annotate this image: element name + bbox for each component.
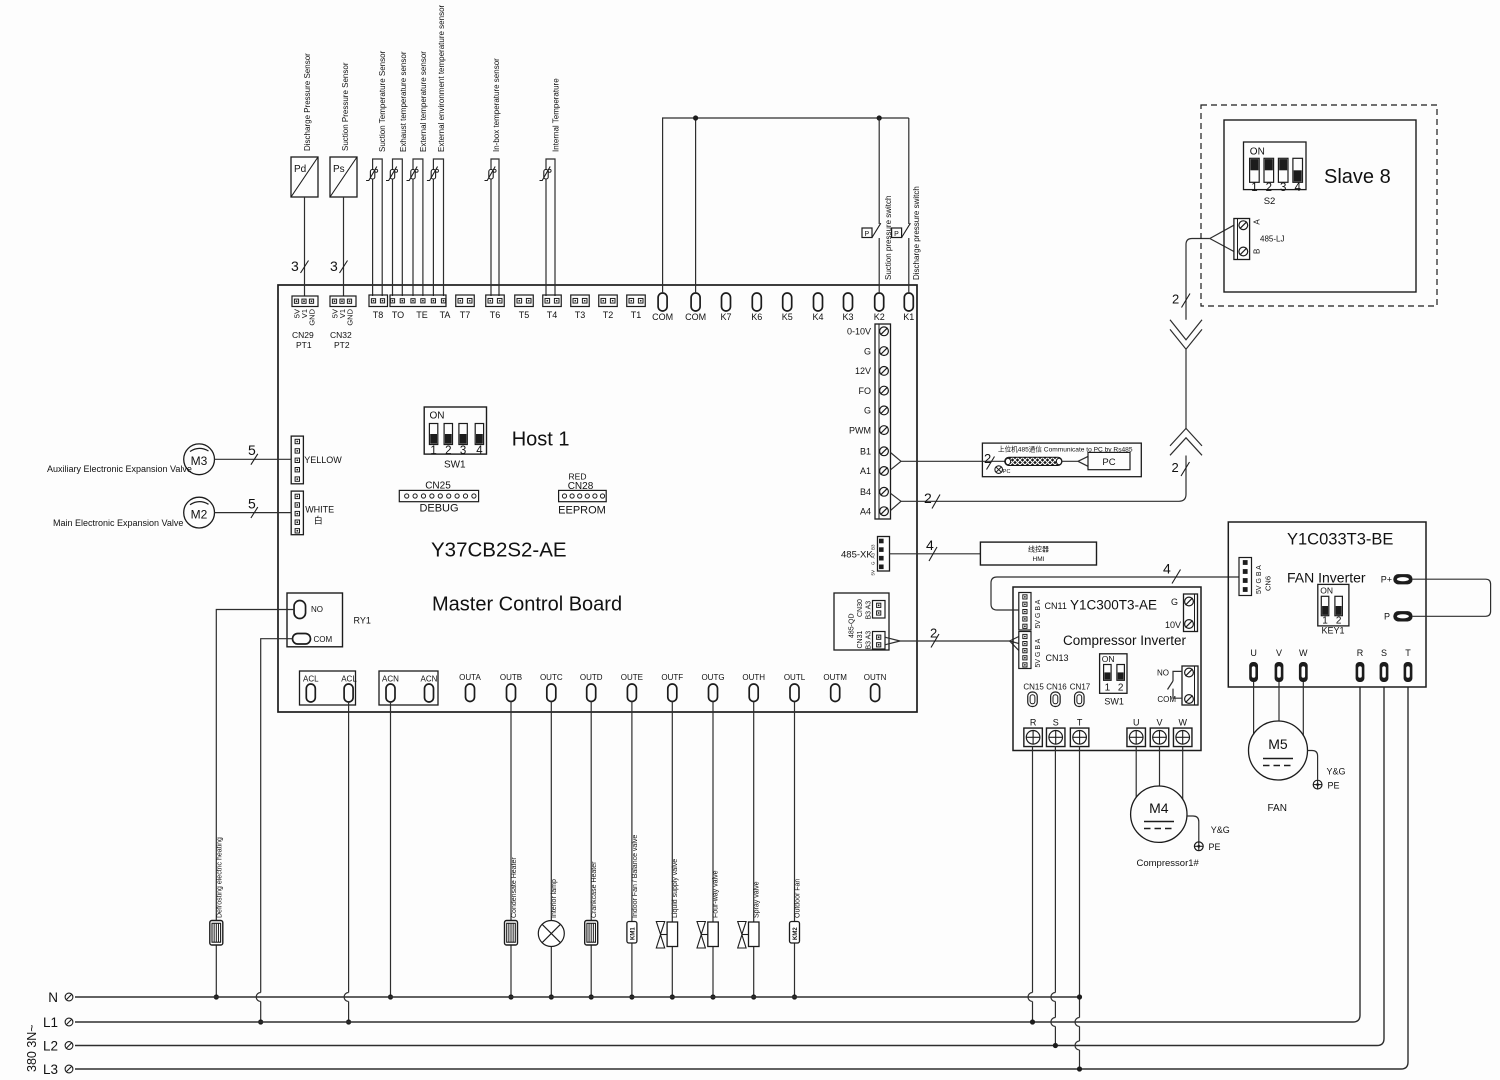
svg-text:W: W <box>1178 718 1187 728</box>
svg-text:TA: TA <box>440 310 451 320</box>
ground PE compressor <box>1194 842 1220 852</box>
svg-text:T6: T6 <box>490 310 501 320</box>
svg-text:OUTC: OUTC <box>540 673 563 682</box>
connector T4 <box>543 295 562 320</box>
terminal strip 0-10V..A4 <box>847 324 891 519</box>
svg-text:OUTH: OUTH <box>742 673 765 682</box>
connector CN_WHITE 5pin <box>291 491 334 535</box>
wire ACL2 to L1 <box>344 702 349 1022</box>
power line N <box>48 990 1079 1005</box>
svg-text:2: 2 <box>1118 683 1124 694</box>
slave unit dashed enclosure <box>1201 105 1437 306</box>
label Discharge pressure switch <box>912 186 921 280</box>
svg-text:TO: TO <box>392 310 404 320</box>
svg-text:Indoor Fan / Balance valve: Indoor Fan / Balance valve <box>632 835 639 918</box>
connector CN25 DEBUG <box>399 481 478 515</box>
grounding circle PC <box>995 466 1011 475</box>
svg-text:5: 5 <box>248 442 256 458</box>
svg-text:S: S <box>1053 718 1059 728</box>
TE sensor loop wire <box>413 159 423 296</box>
wire OUTG to N with solenoid valve <box>712 702 714 998</box>
motor M4 compressor <box>1131 786 1187 842</box>
svg-text:Spray valve: Spray valve <box>753 881 760 918</box>
svg-text:G: G <box>1171 597 1178 607</box>
TO sensor loop wire <box>393 159 403 296</box>
suction pressure switch to K2 <box>862 118 881 293</box>
svg-text:U: U <box>1133 718 1140 728</box>
svg-text:Pd: Pd <box>294 164 306 175</box>
wire-break chevrons up <box>1170 428 1202 455</box>
svg-text:485-QD: 485-QD <box>849 613 856 638</box>
terminal OUTF <box>661 673 683 702</box>
fan inverter terminal U <box>1249 648 1258 682</box>
svg-text:FAN Inverter: FAN Inverter <box>1287 570 1366 586</box>
svg-text:1: 1 <box>430 445 436 457</box>
svg-text:OUTB: OUTB <box>500 673 522 682</box>
wire OUTD to N with crankcase heater <box>590 702 592 998</box>
svg-text:Y1C300T3-AE: Y1C300T3-AE <box>1070 598 1157 613</box>
TA sensor loop wire <box>433 159 443 296</box>
connector T8 <box>369 295 388 320</box>
svg-text:GND: GND <box>346 308 355 325</box>
svg-text:CN31: CN31 <box>857 630 864 648</box>
connector T1 <box>627 295 646 320</box>
junction OUTC on N <box>549 994 554 999</box>
compressor inverter board Y1C300T3-AE <box>1013 587 1201 751</box>
svg-text:M2: M2 <box>191 507 208 521</box>
wire RY1 NO to N line <box>216 610 294 998</box>
T6 sensor loop wire <box>491 159 499 296</box>
wire Ps to CN32 <box>330 197 348 296</box>
svg-text:2: 2 <box>1266 182 1272 194</box>
svg-text:PT1: PT1 <box>296 340 312 350</box>
svg-text:2: 2 <box>1172 460 1179 475</box>
svg-text:ACL: ACL <box>303 675 319 684</box>
terminal OUTG <box>701 673 724 702</box>
svg-text:K5: K5 <box>782 312 793 322</box>
label Y37CB2S2-AE <box>431 539 567 562</box>
svg-text:KEY1: KEY1 <box>1321 626 1344 636</box>
svg-text:3: 3 <box>1280 182 1286 194</box>
svg-text:RED: RED <box>569 472 587 482</box>
svg-text:EEPROM: EEPROM <box>558 505 606 517</box>
svg-text:CN32: CN32 <box>330 330 352 340</box>
junction OUTD on N <box>589 994 594 999</box>
svg-text:5V: 5V <box>871 570 876 576</box>
svg-text:Slave 8: Slave 8 <box>1324 166 1391 188</box>
terminals U V W compressor <box>1127 718 1192 747</box>
svg-text:SW1: SW1 <box>1104 697 1124 707</box>
terminal K4 <box>812 293 823 322</box>
svg-text:Defrosting electric heating: Defrosting electric heating <box>217 837 224 918</box>
motor M5 fan <box>1249 721 1308 780</box>
svg-text:In-box temperature sensor: In-box temperature sensor <box>492 58 501 152</box>
svg-text:OUTF: OUTF <box>661 673 683 682</box>
wire M5 Y&G to PE <box>1308 751 1346 780</box>
svg-text:DEBUG: DEBUG <box>419 503 458 515</box>
label Suction pressure switch <box>884 196 893 280</box>
wire COM common net to pressure switches <box>663 118 909 293</box>
svg-text:OUTD: OUTD <box>580 673 603 682</box>
label Main Electronic Expansion Valve <box>53 518 183 528</box>
svg-text:CN15: CN15 <box>1023 683 1044 692</box>
T6 thermistor symbol <box>485 167 497 181</box>
svg-text:External temperature sensor: External temperature sensor <box>419 51 428 152</box>
master control board outline Y37CB2S2-AE <box>278 285 917 712</box>
svg-text:NO: NO <box>311 605 323 614</box>
svg-text:Discharge pressure switch: Discharge pressure switch <box>912 186 921 280</box>
label Discharge Pressure Sensor <box>303 53 312 151</box>
svg-text:Liquid supply valve: Liquid supply valve <box>672 859 679 918</box>
svg-text:Interior lamp: Interior lamp <box>551 879 558 918</box>
label Auxiliary Electronic Expansion Valve <box>47 464 192 474</box>
label Indoor Fan Balance valve <box>632 835 639 918</box>
wire OUTL to N with outdoor fan coil <box>794 702 796 998</box>
svg-text:OUTN: OUTN <box>864 673 887 682</box>
terminal P <box>1384 611 1413 621</box>
junction ACL2 on L1 <box>346 1019 351 1024</box>
svg-text:OUTM: OUTM <box>823 673 847 682</box>
T8 sensor loop wire <box>373 159 383 296</box>
label Compressor1# <box>1137 858 1200 869</box>
connector T3 <box>571 295 590 320</box>
svg-text:10V: 10V <box>1165 620 1181 630</box>
terminal K3 <box>842 293 853 322</box>
svg-text:GND: GND <box>308 308 317 325</box>
svg-text:T: T <box>1077 718 1083 728</box>
wire between chevrons <box>1185 349 1187 428</box>
svg-text:Compressor Inverter: Compressor Inverter <box>1063 633 1187 648</box>
svg-text:K6: K6 <box>751 312 762 322</box>
power line L1 <box>43 687 1360 1030</box>
svg-text:R: R <box>1030 718 1037 728</box>
terminal OUTH <box>742 673 765 702</box>
svg-text:TE: TE <box>416 310 428 320</box>
junction T on L3 <box>1077 1066 1082 1071</box>
svg-text:ACN: ACN <box>382 675 399 684</box>
label FAN <box>1268 803 1287 814</box>
svg-text:M3: M3 <box>191 454 208 468</box>
T4 sensor loop wire <box>546 159 555 296</box>
label Master Control Board <box>432 594 622 616</box>
fan inverter terminal W <box>1299 648 1308 682</box>
svg-text:COM: COM <box>652 312 673 322</box>
svg-text:3: 3 <box>330 258 338 274</box>
motor M3 auxiliary expansion valve <box>184 444 215 475</box>
svg-text:ACL: ACL <box>341 675 357 684</box>
junction ACN1 on N <box>388 994 393 999</box>
junction on COM net above K2 <box>877 115 882 120</box>
wire CN31 to compressor CN13 <box>885 626 1019 651</box>
wire OUTF to N with solenoid valve <box>671 702 673 998</box>
svg-text:Outdoor Fan: Outdoor Fan <box>795 879 802 918</box>
terminal K6 <box>751 293 762 322</box>
power line L3 <box>43 687 1408 1077</box>
label External environment temperature sensor <box>437 4 446 152</box>
svg-text:Suction Pressure Sensor: Suction Pressure Sensor <box>341 62 350 151</box>
svg-text:ON: ON <box>430 411 445 422</box>
svg-text:Discharge Pressure Sensor: Discharge Pressure Sensor <box>303 53 312 151</box>
svg-text:ON: ON <box>1250 147 1265 158</box>
terminal COM <box>652 293 673 322</box>
svg-text:OUTL: OUTL <box>784 673 806 682</box>
svg-text:V: V <box>1156 718 1162 728</box>
connector T7 <box>456 295 475 320</box>
pressure sensor Pd (Discharge Pressure Sensor) <box>291 157 318 197</box>
indoor fan contactor coil KM1 <box>627 922 637 944</box>
svg-text:CN30: CN30 <box>857 599 864 617</box>
terminal OUTN <box>864 673 887 702</box>
wire CN11 to fan CN6 <box>991 561 1239 611</box>
label Four-way valve <box>713 870 720 918</box>
svg-text:B3 A3: B3 A3 <box>866 601 873 620</box>
svg-text:L2: L2 <box>43 1039 58 1054</box>
svg-text:485-XK: 485-XK <box>841 549 873 560</box>
svg-text:L3: L3 <box>43 1062 58 1077</box>
connector 485-LJ <box>1234 219 1285 260</box>
defrosting electric heating element <box>210 921 223 946</box>
label Outdoor Fan <box>795 879 802 918</box>
svg-text:Ps: Ps <box>333 164 345 175</box>
svg-text:485-LJ: 485-LJ <box>1260 235 1284 244</box>
DIP switch KEY1 <box>1318 584 1349 635</box>
terminal P+ with jumper <box>1381 574 1413 584</box>
power line L2 <box>43 687 1384 1054</box>
pressure sensor Ps (Suction Pressure Sensor) <box>330 157 357 197</box>
wire compressor S to L2 <box>1051 747 1056 1046</box>
svg-text:RY1: RY1 <box>354 616 371 626</box>
svg-text:ACN: ACN <box>421 675 438 684</box>
svg-text:线控器: 线控器 <box>1028 545 1049 554</box>
wire compressor T to L3 <box>1075 747 1080 1070</box>
svg-text:OUTG: OUTG <box>701 673 724 682</box>
svg-text:T1: T1 <box>631 310 642 320</box>
connector CN11 <box>1019 593 1067 631</box>
connector T6 <box>486 295 505 320</box>
label Suction Temperature Sensor <box>378 50 387 152</box>
label Host 1 <box>512 429 570 451</box>
svg-text:Y&G: Y&G <box>1327 767 1346 777</box>
svg-text:B3 A3: B3 A3 <box>866 631 873 650</box>
svg-text:G: G <box>864 406 871 416</box>
svg-text:Internal Temperature: Internal Temperature <box>552 78 561 152</box>
communicate to PC by RS485 box <box>982 443 1141 477</box>
junction OUTF on N <box>670 994 675 999</box>
svg-text:5V G B A: 5V G B A <box>1035 638 1042 667</box>
junction T on N <box>1077 994 1082 999</box>
svg-text:OUTE: OUTE <box>621 673 643 682</box>
svg-text:T7: T7 <box>460 310 471 320</box>
T8 thermistor symbol <box>366 167 378 181</box>
DIP switch SW1 on compressor inverter <box>1100 654 1127 707</box>
svg-text:5V G B A: 5V G B A <box>1256 565 1263 594</box>
label Defrosting electric heating <box>217 837 224 918</box>
terminal NO COM with contact <box>1157 666 1198 705</box>
svg-text:YELLOW: YELLOW <box>304 455 342 465</box>
svg-text:Auxiliary Electronic Expansion: Auxiliary Electronic Expansion Valve <box>47 464 192 474</box>
svg-text:S2: S2 <box>1264 196 1276 207</box>
svg-text:K2: K2 <box>874 312 885 322</box>
relay RY1 <box>287 593 371 647</box>
svg-text:G: G <box>871 561 876 565</box>
svg-text:ON: ON <box>1320 585 1333 595</box>
svg-text:Main Electronic Expansion Valv: Main Electronic Expansion Valve <box>53 518 183 528</box>
svg-text:A4: A4 <box>860 506 871 516</box>
label Condensate Heater <box>511 857 518 918</box>
wires U V W to motor M5 <box>1254 682 1304 736</box>
label Internal Temperature <box>552 78 561 152</box>
wire M2 to WHITE <box>215 495 292 518</box>
condensate heater element <box>505 921 518 946</box>
svg-text:Condensate Heater: Condensate Heater <box>511 857 518 918</box>
wires U V W to motor M4 <box>1136 747 1183 800</box>
Liquid supply valve solenoid valve symbol <box>656 922 677 949</box>
TA thermistor symbol <box>427 167 439 181</box>
wire 485-XK to HMI <box>890 537 981 561</box>
terminal K1 <box>903 293 914 322</box>
label Exhaust temperature sensor <box>399 51 408 152</box>
outdoor fan contactor coil KM2 <box>790 922 800 944</box>
PC box <box>1062 452 1131 469</box>
label Crankcase Heater <box>591 861 598 918</box>
svg-text:ON: ON <box>1102 654 1115 664</box>
svg-text:T2: T2 <box>603 310 614 320</box>
svg-text:N: N <box>48 990 58 1005</box>
svg-text:CN29: CN29 <box>292 330 314 340</box>
DIP switch SW1 on master board <box>424 407 486 471</box>
connector TO TE TA <box>390 295 450 320</box>
svg-text:P: P <box>894 231 899 238</box>
svg-text:K7: K7 <box>720 312 731 322</box>
svg-text:V: V <box>1276 648 1282 658</box>
wire RY1 COM to L1 line <box>256 639 292 1022</box>
connector CN6 <box>1239 558 1273 596</box>
junction RY1-NO on N <box>214 994 219 999</box>
svg-text:4: 4 <box>1163 561 1171 577</box>
svg-text:1: 1 <box>1251 182 1257 194</box>
svg-text:T4: T4 <box>547 310 558 320</box>
fan inverter terminal R <box>1356 648 1365 682</box>
label External temperature sensor <box>419 51 428 152</box>
connector CN_YELLOW 5pin <box>291 436 342 484</box>
DIP switch S2 <box>1244 142 1307 207</box>
label Liquid supply valve <box>672 859 679 918</box>
junction OUTE on N <box>629 994 634 999</box>
svg-text:SW1: SW1 <box>444 460 466 471</box>
svg-text:白: 白 <box>314 515 323 526</box>
svg-text:T: T <box>1405 648 1411 658</box>
svg-text:G: G <box>864 346 871 356</box>
junction OUTL on N <box>792 994 797 999</box>
svg-text:B: B <box>1253 249 1262 254</box>
wire OUTC to N with interior lamp <box>550 702 552 998</box>
svg-text:Four-way valve: Four-way valve <box>713 870 720 918</box>
svg-text:HMI: HMI <box>1033 556 1045 563</box>
svg-text:P+: P+ <box>1381 575 1392 585</box>
svg-text:5V G B A: 5V G B A <box>1035 599 1042 628</box>
svg-text:5: 5 <box>248 495 256 511</box>
junction on COM net above COM2 <box>693 115 698 120</box>
fan inverter board Y1C033T3-BE <box>1228 522 1426 687</box>
jumper wire P+ to P <box>1413 579 1491 616</box>
svg-text:Y37CB2S2-AE: Y37CB2S2-AE <box>431 539 567 562</box>
svg-text:1: 1 <box>1105 683 1111 694</box>
wire OUTE to N with contactor coil <box>631 702 633 998</box>
connector CN32 PT2 <box>330 296 356 350</box>
svg-text:Y&G: Y&G <box>1211 825 1230 835</box>
svg-text:External environment temperatu: External environment temperature sensor <box>437 4 446 152</box>
svg-text:KM2: KM2 <box>793 927 799 940</box>
HMI wire controller box <box>980 542 1096 565</box>
terminal K5 <box>782 293 793 322</box>
connector CN28 EEPROM RED <box>558 472 606 517</box>
svg-text:L1: L1 <box>43 1015 58 1030</box>
svg-text:U: U <box>1250 648 1257 658</box>
label 380 3N~ <box>25 1024 39 1072</box>
fan inverter terminal T <box>1404 648 1413 682</box>
svg-text:B4: B4 <box>860 487 871 497</box>
label In-box temperature sensor <box>492 58 501 152</box>
interior lamp <box>538 921 564 947</box>
svg-text:PE: PE <box>1209 842 1221 852</box>
slave board outline <box>1224 120 1416 292</box>
svg-text:CN6: CN6 <box>1264 576 1273 591</box>
svg-text:3: 3 <box>460 445 466 457</box>
wire OUTB to N with condensate heater <box>510 702 512 998</box>
svg-text:Exhaust temperature sensor: Exhaust temperature sensor <box>399 51 408 152</box>
terminal OUTL <box>784 673 806 702</box>
svg-text:4: 4 <box>476 445 483 457</box>
svg-text:OUTA: OUTA <box>459 673 481 682</box>
svg-text:CN17: CN17 <box>1070 683 1091 692</box>
svg-text:FAN: FAN <box>1268 803 1287 814</box>
svg-text:K3: K3 <box>842 312 853 322</box>
svg-text:B1: B1 <box>860 447 871 457</box>
connector CN13 <box>1019 632 1069 669</box>
wire OUTH to N with solenoid valve <box>753 702 755 998</box>
junction OUTG on N <box>710 994 715 999</box>
connectors CN15 CN16 CN17 <box>1023 683 1090 707</box>
svg-text:PE: PE <box>1328 781 1340 791</box>
terminal OUTM <box>823 673 847 702</box>
wire compressor R to L1 <box>1028 747 1033 1023</box>
svg-text:A1: A1 <box>860 466 871 476</box>
svg-text:M4: M4 <box>1149 800 1169 816</box>
svg-text:W: W <box>1299 648 1308 658</box>
svg-text:NO: NO <box>1157 669 1169 678</box>
svg-text:CN13: CN13 <box>1046 653 1069 663</box>
svg-text:T8: T8 <box>373 310 384 320</box>
svg-text:M5: M5 <box>1268 736 1288 752</box>
ground PE fan <box>1313 780 1339 790</box>
wire B4 A4 pair to slave units <box>891 456 1190 511</box>
svg-text:T5: T5 <box>519 310 530 320</box>
svg-text:12V: 12V <box>855 366 871 376</box>
Four-way valve solenoid valve symbol <box>697 922 718 949</box>
T4 thermistor symbol <box>540 167 552 181</box>
svg-text:Compressor1#: Compressor1# <box>1137 858 1200 869</box>
svg-text:R: R <box>1357 648 1364 658</box>
terminal OUTA <box>459 673 481 702</box>
terminal K7 <box>720 293 731 322</box>
junction R on L1 <box>1030 1019 1035 1024</box>
svg-text:P: P <box>865 231 870 238</box>
svg-text:KM1: KM1 <box>631 927 637 940</box>
terminal OUTB <box>500 673 522 702</box>
label Slave 8 <box>1324 166 1391 188</box>
label Spray valve <box>753 881 760 918</box>
svg-text:COM: COM <box>685 312 706 322</box>
